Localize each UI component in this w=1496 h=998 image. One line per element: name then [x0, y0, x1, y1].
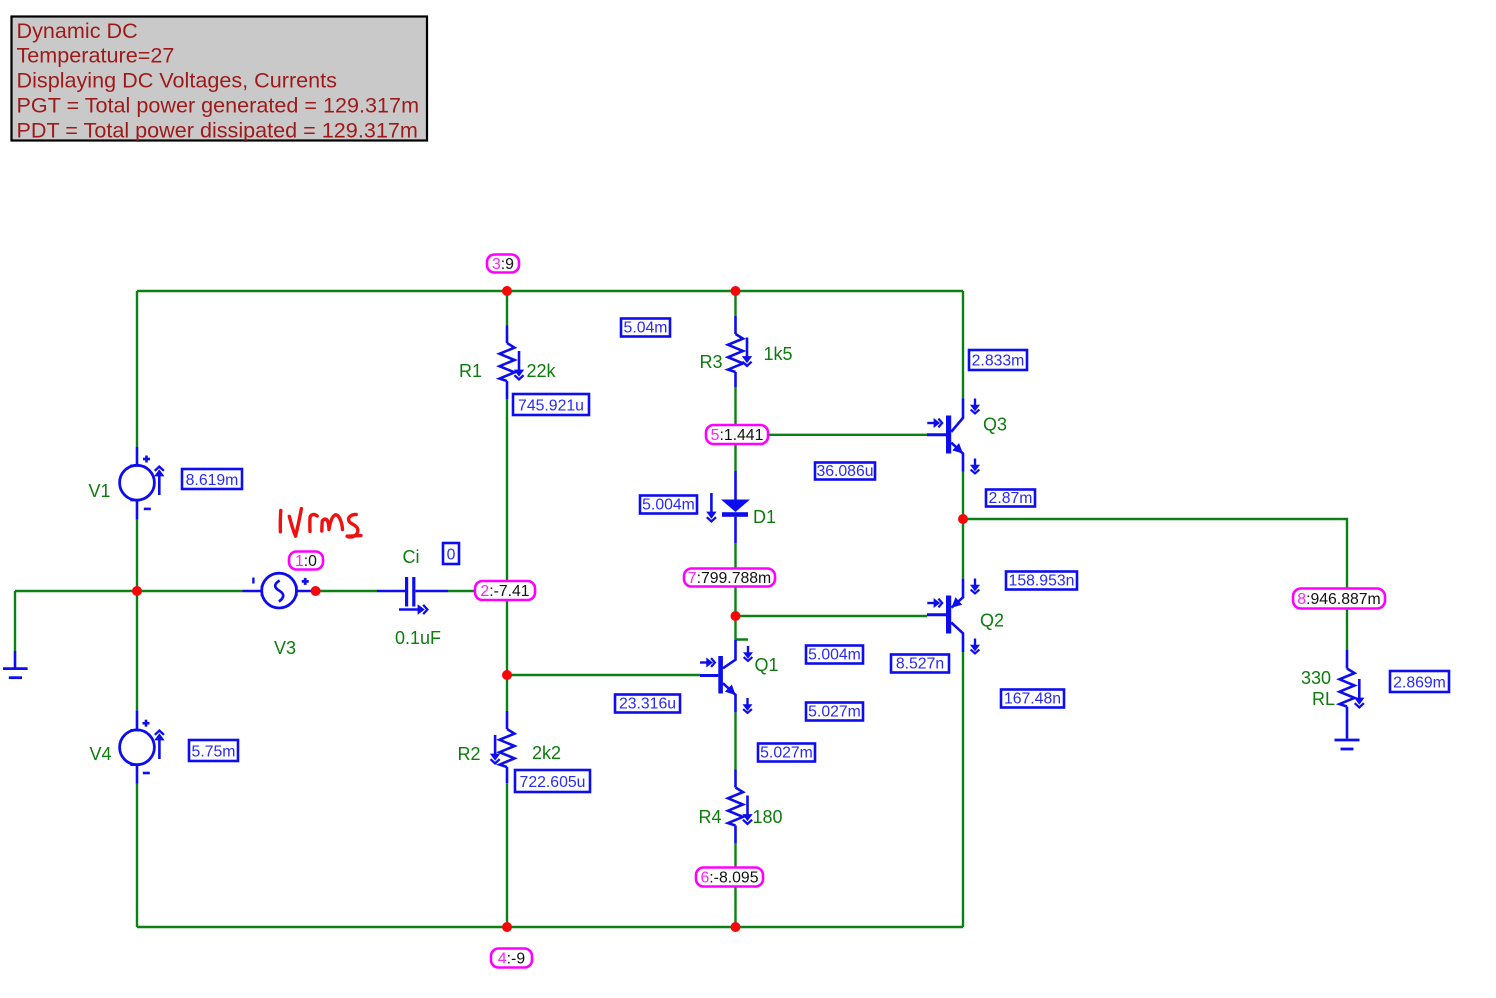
svg-text:5.004m: 5.004m [642, 497, 695, 514]
svg-text:23.316u: 23.316u [619, 696, 676, 713]
transistor Q3 [927, 398, 963, 472]
value box 23.316u (Q1 base current) [615, 695, 680, 713]
value box 8.527n (Q2 base current) [891, 655, 949, 673]
svg-text:Displaying DC Voltages, Curren: Displaying DC Voltages, Currents [17, 68, 338, 93]
svg-text:Q3: Q3 [983, 415, 1007, 435]
wire Q1 base horizontal [507, 674, 700, 676]
resistor R4 [728, 770, 743, 844]
svg-text:2.869m: 2.869m [1393, 674, 1446, 691]
D1 current arrow [706, 493, 716, 521]
Q3 emitter current arrow [970, 459, 980, 474]
svg-text:Q2: Q2 [980, 611, 1004, 631]
svg-text:R4: R4 [698, 807, 721, 827]
wire ground spur left [14, 591, 16, 651]
wire Q1 emitter to R4 [734, 712, 736, 769]
wire R3 bottom to D1 [734, 387, 736, 471]
svg-text:V3: V3 [274, 638, 296, 658]
junction bottom rail / R4 [731, 922, 741, 932]
wire node 5 horizontal to Q3 base [736, 434, 928, 436]
svg-text:5.027m: 5.027m [808, 704, 861, 721]
junction V3 output / node 1 [311, 586, 321, 596]
svg-text:3:9: 3:9 [492, 256, 514, 273]
Ci current arrow [399, 604, 427, 614]
transistor Q1 [700, 640, 736, 712]
value box 5.004m (D1 current) [640, 496, 697, 514]
svg-text:R2: R2 [457, 744, 480, 764]
svg-text:158.953n: 158.953n [1009, 573, 1075, 590]
R2 current arrow [490, 735, 500, 763]
svg-text:180: 180 [752, 807, 782, 827]
node 4 label [491, 949, 532, 968]
resistor RL [1340, 650, 1355, 739]
R1 current arrow [514, 351, 524, 379]
svg-text:Q1: Q1 [754, 655, 778, 675]
svg-text:330: 330 [1301, 668, 1331, 688]
diode D1 [721, 471, 750, 543]
svg-text:R1: R1 [459, 361, 482, 381]
svg-text:1:0: 1:0 [295, 553, 317, 570]
R4 current arrow [742, 796, 752, 824]
wire Q2 collector to bottom rail [962, 652, 964, 927]
value box 167.48n (Q2 collector current) [1001, 690, 1064, 708]
wire Q1 collector elbow [736, 616, 749, 640]
wire bottom rail [137, 926, 963, 928]
V4 current arrow [154, 731, 164, 759]
svg-text:2.87m: 2.87m [989, 490, 1033, 507]
value box 745.921u (R1 current) [513, 394, 589, 415]
value box 5.027m (R4 current) [758, 744, 815, 762]
Q1 base current arrow [700, 658, 715, 668]
wire R1 bottom to R2 top [506, 399, 508, 711]
wire V3 to capacitor [316, 590, 377, 592]
svg-text:4:-9: 4:-9 [498, 950, 525, 967]
Q3 collector current arrow [970, 399, 980, 414]
value box 2.833m (Q3 collector current) [969, 350, 1027, 370]
value box 36.086u (Q3 base current) [815, 463, 875, 481]
handwritten annotation 1Vrms [280, 509, 361, 537]
junction bottom rail / R2 [502, 922, 512, 932]
wire Q3 emitter to output node [962, 472, 964, 519]
svg-text:36.086u: 36.086u [816, 463, 873, 480]
svg-text:1k5: 1k5 [763, 344, 792, 364]
svg-text:D1: D1 [753, 507, 776, 527]
svg-text:5.027m: 5.027m [760, 745, 813, 762]
wire output node to Q2 emitter [962, 519, 964, 579]
value box 8.619m (V1 current) [182, 469, 242, 489]
svg-text:8.619m: 8.619m [186, 472, 239, 489]
node 6 label [696, 868, 763, 887]
svg-text:5.004m: 5.004m [808, 647, 861, 664]
wire capacitor to node 2 [448, 590, 507, 592]
resistor R1 [500, 326, 515, 400]
Q1 emitter current arrow [743, 698, 753, 713]
svg-text:722.605u: 722.605u [520, 774, 586, 791]
ground right (under RL) [1335, 740, 1360, 749]
resistor R3 [728, 316, 743, 387]
wire left column lower [136, 784, 138, 927]
voltage source V4 [120, 710, 155, 784]
svg-text:V1: V1 [88, 481, 110, 501]
Q1 collector current arrow [743, 646, 753, 661]
voltage source V1 [120, 447, 155, 520]
wire output node to RL column [963, 519, 1347, 589]
value box 5.75m (V4 current) [189, 740, 238, 761]
junction R1-R2 / Q1 base wire [502, 670, 512, 680]
wire node 8 to RL [1346, 608, 1348, 650]
svg-text:5.04m: 5.04m [624, 320, 668, 337]
value box 722.605u (R2 current) [515, 770, 590, 792]
svg-text:Dynamic DC: Dynamic DC [17, 18, 138, 43]
svg-text:0: 0 [447, 547, 456, 564]
svg-text:22k: 22k [526, 361, 556, 381]
svg-text:5:1.441: 5:1.441 [711, 427, 764, 444]
svg-text:8.527n: 8.527n [896, 656, 944, 673]
wire R3 top lead [734, 291, 736, 316]
wire left column upper [136, 291, 138, 447]
svg-text:7:799.788m: 7:799.788m [688, 570, 771, 587]
value box 5.027m (Q1 emitter current) [806, 703, 863, 721]
wire input horizontal to V3 [15, 590, 243, 592]
junction top rail / R3 [731, 286, 741, 296]
V1 current arrow [154, 467, 164, 495]
value box 158.953n (Q2 emitter current) [1006, 572, 1077, 590]
svg-text:Temperature=27: Temperature=27 [17, 43, 175, 68]
node 1 label [289, 552, 323, 570]
svg-text:6:-8.095: 6:-8.095 [701, 869, 759, 886]
wire top rail [137, 290, 963, 292]
svg-text:V4: V4 [89, 744, 111, 764]
capacitor Ci [377, 577, 448, 607]
node 3 label [487, 255, 519, 273]
RL current arrow [1354, 679, 1364, 707]
Q2 emitter current arrow [970, 579, 980, 594]
Q2 base current arrow [927, 598, 942, 608]
ground left [3, 651, 28, 678]
sine source V3 [243, 573, 316, 608]
wire R1 top lead [506, 291, 508, 326]
svg-text:8:946.887m: 8:946.887m [1297, 591, 1380, 608]
svg-text:PDT = Total power dissipated =: PDT = Total power dissipated = 129.317m [17, 118, 418, 143]
wire top rail to Q3 collector [962, 291, 964, 398]
value box 2.869m (RL current) [1390, 671, 1449, 692]
node 5 label [706, 425, 768, 444]
svg-text:5.75m: 5.75m [192, 743, 236, 760]
svg-text:0.1uF: 0.1uF [395, 628, 441, 648]
Q2 collector current arrow [970, 639, 980, 654]
wire node 7 horizontal to Q2 base [736, 615, 928, 617]
value box 5.04m (R3 current) [621, 319, 670, 337]
Q3 base current arrow [927, 418, 942, 428]
svg-text:2k2: 2k2 [532, 743, 561, 763]
node 2 label [475, 581, 535, 600]
svg-text:PGT = Total power generated =: PGT = Total power generated = 129.317m [17, 93, 420, 118]
svg-text:2.833m: 2.833m [972, 353, 1025, 370]
wire D1 to node 7 [734, 543, 736, 616]
wire R4 bottom to rail [734, 843, 736, 927]
node 8 label [1293, 589, 1385, 609]
junction top rail / R1 [502, 286, 512, 296]
wire R2 bottom to rail [506, 783, 508, 927]
svg-text:2:-7.41: 2:-7.41 [480, 583, 529, 600]
junction left column / input wire [132, 586, 142, 596]
svg-text:RL: RL [1312, 689, 1335, 709]
resistor R2 [500, 711, 515, 783]
transistor Q2 [927, 579, 963, 652]
value box 5.004m (Q1 collector current) [806, 646, 863, 664]
analysis header box [12, 17, 428, 143]
junction node 7 / Q1 collector [731, 611, 741, 621]
svg-text:Ci: Ci [403, 547, 420, 567]
svg-text:R3: R3 [699, 352, 722, 372]
node 7 label [684, 569, 775, 587]
value box 0 (Ci charge) [443, 543, 459, 564]
value box 2.87m (Q3 emitter current) [986, 490, 1035, 508]
junction output node 8 wire [958, 514, 968, 524]
svg-text:745.921u: 745.921u [518, 397, 584, 414]
svg-text:167.48n: 167.48n [1004, 691, 1061, 708]
R3 current arrow [742, 338, 752, 366]
wire left column middle [136, 520, 138, 711]
